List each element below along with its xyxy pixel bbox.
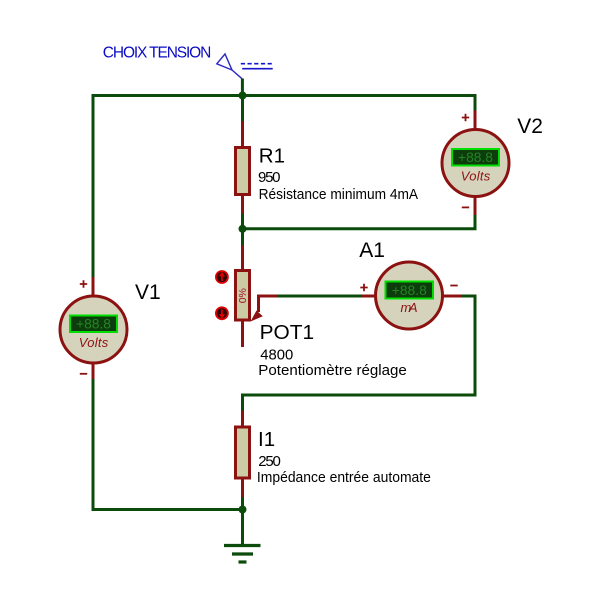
voltmeter V1 top pin	[92, 277, 95, 296]
ground symbol	[224, 546, 261, 563]
potentiometer POT1 body	[236, 271, 250, 321]
wire left vertical lower	[92, 379, 95, 511]
wire top horizontal	[92, 94, 476, 97]
resistor R1 bottom pin	[241, 196, 244, 214]
ammeter A1 body	[376, 262, 443, 329]
wire R1 bottom to POT top	[241, 214, 244, 246]
svg-text:A1: A1	[359, 239, 385, 262]
voltmeter V1 display	[70, 316, 117, 333]
svg-text:950: 950	[258, 169, 281, 186]
voltmeter V1 bottom pin	[92, 364, 95, 379]
svg-text:Impédance entrée automate: Impédance entrée automate	[257, 469, 431, 486]
wire A1 right to I1 top	[243, 296, 476, 411]
wire V2 top stub	[474, 94, 477, 111]
resistor I1 bottom pin	[241, 478, 244, 497]
potentiometer POT1 wiper line	[259, 296, 278, 312]
ammeter A1 display	[386, 282, 434, 299]
voltmeter V2 display	[452, 149, 499, 166]
svg-text:Volts: Volts	[461, 169, 491, 184]
svg-text:+88.8: +88.8	[458, 150, 493, 165]
terminal lead line	[232, 70, 242, 79]
voltmeter V1 plus sign	[80, 280, 87, 287]
terminal green pin stub	[241, 79, 244, 96]
voltmeter V1 body	[60, 296, 127, 363]
svg-text:Volts: Volts	[79, 335, 109, 350]
potentiometer POT1 wiper arrowhead	[251, 311, 263, 322]
wire bottom horizontal	[92, 508, 243, 511]
wire left vertical upper	[92, 94, 95, 277]
wire junction to V2 bottom	[243, 215, 476, 229]
junction dot bottom	[239, 506, 247, 514]
voltmeter V2 body	[442, 130, 509, 197]
voltmeter V2 top pin	[474, 111, 477, 130]
resistor R1 top pin	[241, 121, 244, 146]
svg-text:V1: V1	[135, 281, 161, 304]
svg-text:+88.8: +88.8	[392, 283, 427, 298]
potentiometer up button	[216, 271, 228, 283]
terminal triangle symbol	[217, 54, 232, 70]
svg-text:Potentiomètre réglage: Potentiomètre réglage	[258, 362, 407, 379]
voltmeter V2 plus sign	[462, 114, 469, 121]
terminal dashed label line	[241, 63, 273, 65]
svg-text:V2: V2	[517, 115, 543, 138]
ammeter A1 minus sign	[450, 285, 457, 287]
ammeter A1 right pin	[443, 295, 462, 298]
svg-text:R1: R1	[259, 145, 285, 168]
potentiometer down button	[216, 307, 228, 319]
svg-text:250: 250	[258, 453, 281, 470]
resistor I1 body	[236, 427, 250, 478]
wire POT wiper to A1 left	[278, 295, 363, 298]
svg-text:Résistance minimum 4mA: Résistance minimum 4mA	[259, 186, 419, 203]
svg-text:4800: 4800	[260, 347, 293, 364]
ammeter A1 left pin	[362, 295, 376, 298]
voltmeter V2 minus sign	[462, 206, 469, 208]
terminal solid underline	[242, 68, 273, 70]
resistor R1 body	[236, 148, 250, 195]
voltmeter V1 minus sign	[80, 373, 87, 375]
junction dot top	[239, 92, 247, 100]
svg-text:+88.8: +88.8	[76, 317, 111, 332]
svg-text:POT1: POT1	[260, 321, 315, 344]
resistor I1 top pin	[241, 411, 244, 427]
voltmeter V2 bottom pin	[474, 198, 477, 216]
svg-text:I1: I1	[258, 428, 275, 451]
svg-text:0%: 0%	[237, 288, 249, 303]
junction dot R1 bottom	[239, 225, 247, 233]
ammeter A1 plus sign	[360, 284, 367, 291]
svg-text:CHOIX TENSION: CHOIX TENSION	[103, 44, 212, 61]
potentiometer POT1 top pin	[241, 245, 244, 269]
svg-text:mA: mA	[401, 300, 418, 315]
wire R1 top stub	[241, 96, 244, 122]
potentiometer POT1 bottom pin	[241, 322, 244, 348]
wire I1 bottom to ground junction	[241, 497, 244, 545]
